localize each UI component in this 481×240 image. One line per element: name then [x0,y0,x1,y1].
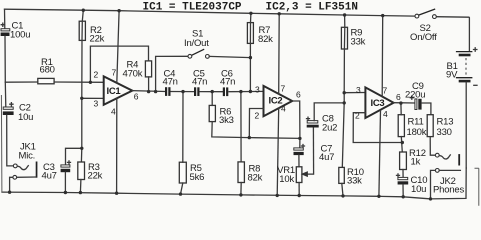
wire: R11 bottom to junction [401,137,402,152]
svg-text:3: 3 [356,85,361,95]
svg-text:220u: 220u [405,90,425,101]
svg-text:In/Out: In/Out [184,38,209,49]
wire: left vertical from top rail to C1 [4,9,6,28]
bottom ground rail [2,192,431,199]
wire: R6 top leg [211,92,213,106]
svg-text:4: 4 [281,104,286,114]
JK1 frame bar [36,162,38,178]
JK2 outline to battery negative [431,168,467,199]
wire: C9 to R13 top [422,103,431,115]
wire: VR1 bottom to ground [298,183,300,196]
svg-text:680: 680 [40,65,55,76]
resistor R11 [398,115,427,138]
jack JK2 [431,153,467,199]
svg-text:47n: 47n [192,77,207,88]
op-amp IC1 [94,68,139,117]
JK2 sleeve contact circle [435,169,439,173]
JK1 sleeve contact circle [13,175,17,179]
wire: feedback loop R4 top to IC1 pin2 [90,46,148,82]
svg-text:IC2,3 = LF351N: IC2,3 = LF351N [266,2,358,14]
svg-text:330: 330 [437,127,452,138]
wire: C2 bottom to JK1 top contact [7,115,15,166]
capacitor C8 [307,114,338,134]
capacitor C5 [192,69,207,97]
svg-text:10u: 10u [18,112,33,123]
wire: IC1 pin4 to ground [116,98,118,193]
svg-text:1k: 1k [411,157,421,168]
B1 positive plate [456,51,473,53]
svg-text:4: 4 [111,107,116,117]
wire: IC3 output [394,102,415,104]
wire: C7 to VR1 [298,155,300,167]
wire: IC3 pin3 from bias node [344,92,365,94]
svg-text:3k3: 3k3 [219,115,234,126]
top supply rail [5,9,416,16]
op-amp IC3 [355,85,401,121]
wire: R7 column rail to pin3 node [249,13,252,91]
junction dots ground rail [8,191,11,194]
svg-text:2: 2 [255,111,260,121]
JK2 sleeve wire to bar [439,169,460,171]
svg-text:47n: 47n [163,77,178,88]
svg-text:6: 6 [134,92,139,102]
svg-text:47n: 47n [220,77,235,88]
wire: IC3 pin7 to rail [381,16,384,97]
capacitor C4 [163,69,178,96]
wire: IC3 pin4 to ground [379,111,381,197]
svg-text:82k: 82k [248,173,263,184]
wire: R13 bottom to JK2 tip [430,137,435,156]
junction dot S1 to R7 [249,56,252,59]
svg-text:R11: R11 [408,117,424,128]
wire: pin3 of IC1 from bias column [82,97,104,99]
capacitor C10 [397,174,428,195]
svg-text:IC1: IC1 [107,86,122,97]
wire: R12 bottom to C10 [402,170,404,178]
wire: IC1 pin7 to top rail [117,11,119,83]
page edge line right [475,168,479,206]
svg-text:7: 7 [112,68,117,78]
wire: node to R1 left [5,81,38,83]
svg-text:4u7: 4u7 [319,152,334,163]
wire: R8 column from pin3 node to ground [240,92,242,162]
page edge line left [0,95,3,192]
S1 lever [192,49,205,55]
svg-text:2: 2 [94,70,99,80]
wire: R2 column from rail through pin3 branch down to R3 [81,10,83,162]
svg-text:10k: 10k [279,174,294,185]
svg-text:5k6: 5k6 [190,172,205,183]
B1 minus mark [474,84,477,86]
svg-text:2: 2 [355,111,360,121]
svg-text:470k: 470k [123,69,143,80]
S1 left contact [188,54,192,58]
junction dot R11 R12 [401,141,404,144]
svg-text:4u7: 4u7 [42,171,57,182]
wire: IC2 output down [292,101,300,148]
B1 cell dashes [465,58,467,76]
svg-text:22k: 22k [90,34,105,45]
svg-text:82k: 82k [258,34,273,45]
wire: R11 top to output node [400,103,402,115]
JK1 sleeve wire to bar [17,176,36,178]
junction dots feedback line IC2 [248,136,251,139]
junction dot IC3 output [399,101,402,104]
junction dots top rail [82,9,85,12]
wire: R3 bottom to ground [79,180,82,193]
wire: C3 bottom to ground [64,172,66,192]
svg-text:9V: 9V [446,70,458,81]
capacitor C1 [1,21,31,41]
svg-text:IC3: IC3 [371,98,385,109]
svg-text:3: 3 [94,99,99,109]
JK1 tip contact circle [13,164,17,168]
svg-text:Mic.: Mic. [19,151,36,162]
wire: R4 bottom to output line [148,77,150,92]
resistor R5 [179,162,204,183]
svg-text:6: 6 [396,92,401,102]
capacitor C7 [294,144,335,164]
top rail right segment after S2 [436,17,469,52]
S1 right contact [206,55,210,59]
wire: R1 right to IC1 pin2 [54,81,104,83]
svg-text:10u: 10u [411,184,426,195]
wire: IC1 output signal line to IC2 pin3 [132,90,165,93]
svg-text:7: 7 [281,84,286,94]
svg-text:On/Off: On/Off [410,32,437,43]
JK2 tip spring [439,155,450,159]
svg-text:2u2: 2u2 [322,123,337,134]
VR1 wiper arrow [302,172,313,176]
svg-text:100u: 100u [10,30,30,41]
junction dot bias pin3 [80,97,83,100]
capacitor C6 [220,69,235,97]
JK2 frame bar [458,154,460,165]
wire: IC3 pin2 loop to R11/R12 junction [353,113,402,143]
svg-text:3: 3 [255,85,260,95]
resistor R8 [238,162,263,184]
wire: wiper column up to C8 [312,128,314,174]
resistor R4 [123,60,152,80]
S1 left leg from signal line [156,56,188,91]
switch S2 [410,9,437,43]
capacitor C2 [3,103,33,124]
svg-text:33k: 33k [351,37,366,48]
wire: IC2 pin7 to rail [278,14,281,94]
svg-text:180k: 180k [407,127,427,138]
resistor R1 [38,57,55,84]
JK1 sleeve wire to ground [10,177,13,192]
resistor R6 [209,105,234,126]
resistor R2 [79,21,104,44]
svg-text:4: 4 [383,109,388,119]
wire: bias column down to R10 [342,103,344,167]
JK1 tip spring [17,166,28,170]
junction dot C3 branch [80,147,83,150]
wire: C8 top to IC3 pin3 node [314,103,344,121]
S2 left contact [415,14,419,18]
resistor R13 [427,115,453,138]
junction dots signal line [147,90,150,93]
S2 lever [419,9,436,15]
wire: IC2 pin2 loop to feedback line [249,109,263,138]
wire: C3 branch from bias column [66,148,82,165]
op-amp IC2 [255,84,302,121]
wire: R6 bottom to feedback node line [212,122,300,139]
wire: IC2 pin4 to ground [277,108,279,195]
wire: R5 column [182,92,184,163]
junction dots IC3 bias [343,91,346,94]
battery B1 [446,48,477,168]
jack JK1 [10,142,38,193]
B1 second cell [456,77,473,79]
svg-text:6: 6 [296,90,301,100]
junction dot IC1 pin2 feedback [89,81,92,84]
S1 right wire to R7 column [209,56,250,57]
switch S1 [156,29,251,92]
potentiometer VR1 [277,165,313,185]
svg-text:7: 7 [383,86,388,96]
wire: C10 bottom to ground [402,185,404,197]
svg-text:Phones: Phones [433,185,464,196]
wire: R10 bottom to ground [342,183,343,196]
resistor R7 [247,23,273,45]
resistor R10 [339,167,364,187]
JK2 tip contact circle [435,153,439,157]
S2 right contact [433,15,437,19]
B1 negative wire down [465,82,467,168]
wire: R9 column rail to IC3 pin3 node [343,15,346,103]
svg-text:22k: 22k [88,171,103,182]
JK2 sleeve wire to ground [431,170,436,199]
svg-text:R13: R13 [437,117,454,128]
resistor R12 [400,148,426,170]
capacitor C9 [405,81,425,110]
capacitor C3 [42,161,71,182]
resistor R3 [78,162,103,182]
wire: C1 bottom to R1 node to C2 top [4,36,7,107]
svg-text:33k: 33k [347,176,362,187]
resistor R9 [341,27,365,49]
B1 plus mark [474,48,477,51]
